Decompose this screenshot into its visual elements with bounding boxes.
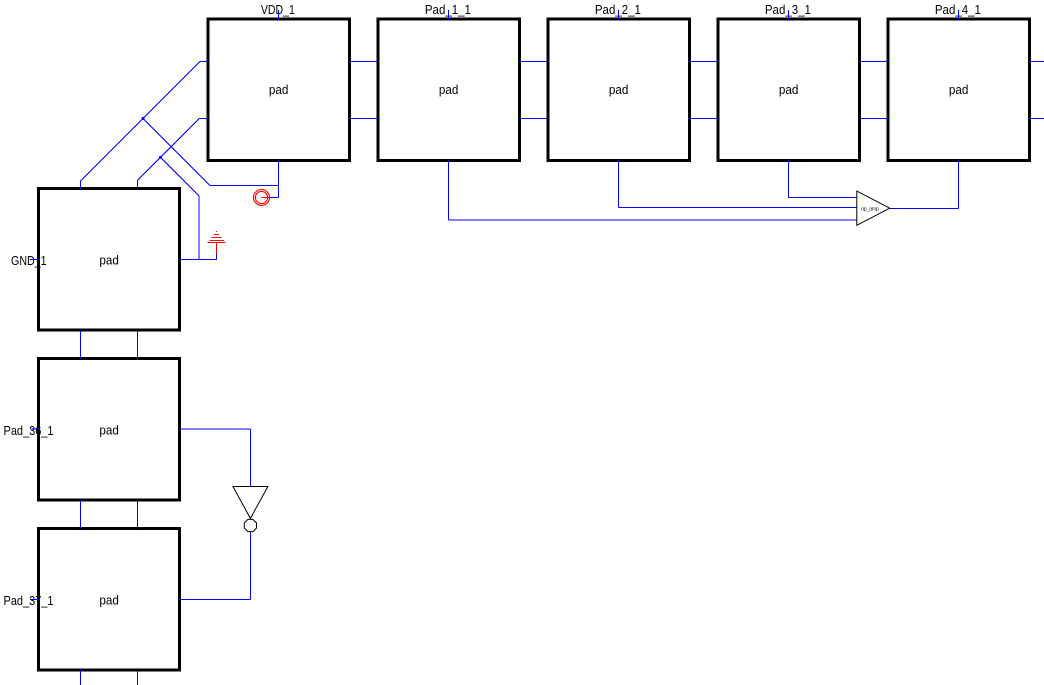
wire GND_1 top pin stub right bbox=[136, 180, 138, 190]
wire Pad_36_1 bottom stub left bbox=[79, 500, 81, 529]
wire VDD_1 to Pad_1_1 upper bbox=[349, 60, 377, 62]
wire Pad_4_1 right upper to edge bbox=[1029, 60, 1044, 62]
svg-text:Pad_3_1: Pad_3_1 bbox=[765, 2, 811, 17]
pad instance VDD_1 box bbox=[208, 19, 350, 160]
wire Pad_4_1 right lower to edge bbox=[1029, 117, 1044, 119]
svg-text:pad: pad bbox=[779, 82, 799, 97]
vdd port symbol double circle bbox=[254, 190, 270, 206]
wire net pad3 to opamp upper input bbox=[789, 196, 857, 198]
svg-text:Pad_4_1: Pad_4_1 bbox=[935, 2, 981, 17]
wire VDD_1 left lower pin stub bbox=[199, 117, 208, 119]
wire Pad_2_1 to Pad_3_1 upper bbox=[689, 60, 717, 62]
wire to vdd port circle bbox=[268, 197, 279, 199]
wire inverter output to Pad_37_1 bbox=[180, 598, 251, 600]
wire diagonal node A to vdd horizontal bbox=[143, 119, 210, 186]
pad instance Pad_37_1 box bbox=[39, 529, 180, 670]
wire Pad_2_1 to Pad_3_1 lower bbox=[689, 117, 717, 119]
svg-text:Pad_1_1: Pad_1_1 bbox=[425, 2, 471, 17]
svg-text:VDD_1: VDD_1 bbox=[261, 2, 295, 17]
wire Pad_2_1 top pin stub bbox=[618, 10, 620, 20]
wire VDD_1 top pin stub bbox=[278, 10, 280, 20]
wire Pad_1_1 top pin stub bbox=[448, 10, 450, 20]
wire Pad_37_1 bottom stub left bbox=[79, 670, 81, 685]
wire diagonal node B to GND_1 right top pin bbox=[137, 157, 160, 180]
svg-text:Pad_37_1: Pad_37_1 bbox=[4, 593, 54, 608]
wire Pad_36_1 bottom stub right bbox=[136, 500, 138, 529]
wire Pad_37_1 bottom stub right bbox=[136, 670, 138, 685]
op-amp U1 bbox=[857, 191, 890, 225]
wire GND_1 bottom stub right bbox=[136, 330, 138, 359]
wire Pad_36_1 left pin stub bbox=[30, 428, 40, 430]
svg-text:GND_1: GND_1 bbox=[11, 253, 47, 268]
wire Pad_37_1 left pin stub bbox=[30, 598, 40, 600]
wire diagonal node B to vertical bbox=[161, 157, 200, 196]
wire Pad_4_1 top pin stub bbox=[958, 10, 960, 20]
wire diagonal stub1 to node A bbox=[143, 61, 200, 118]
pad instance Pad_4_1 box bbox=[888, 19, 1030, 160]
wire Pad_1_1 to Pad_2_1 upper bbox=[519, 60, 547, 62]
wire GND_1 top pin stub left bbox=[79, 181, 81, 190]
wire net vdd horizontal to port bbox=[210, 185, 279, 187]
wire Pad_1_1 to Pad_2_1 lower bbox=[519, 117, 547, 119]
svg-text:pad: pad bbox=[99, 252, 119, 267]
svg-text:op_amp: op_amp bbox=[861, 207, 879, 213]
junction node B bbox=[159, 156, 162, 159]
wire Pad_3_1 to Pad_4_1 lower bbox=[859, 117, 887, 119]
svg-text:Pad_2_1: Pad_2_1 bbox=[595, 2, 641, 17]
wire Pad_3_1 bottom stub down bbox=[788, 160, 790, 197]
wire Pad_3_1 top pin stub bbox=[788, 10, 790, 20]
inverter U2 bbox=[233, 487, 268, 532]
wire net pad2 to opamp middle input bbox=[619, 207, 857, 209]
wire GND_1 left pin stub bbox=[30, 258, 40, 260]
svg-text:pad: pad bbox=[609, 82, 629, 97]
wire node B down vertical bbox=[198, 196, 200, 259]
wire Pad_1_1 bottom stub down bbox=[448, 160, 450, 220]
svg-text:pad: pad bbox=[269, 82, 289, 97]
wire VDD_1 to Pad_1_1 lower bbox=[349, 117, 377, 119]
wire Pad_2_1 bottom stub down bbox=[618, 160, 620, 207]
pad instance Pad_36_1 box bbox=[39, 359, 180, 500]
wire Pad_4_1 bottom stub down bbox=[958, 160, 960, 208]
junction node A bbox=[142, 117, 145, 120]
pad instance GND_1 box bbox=[39, 189, 180, 330]
pad instance Pad_3_1 box bbox=[718, 19, 860, 160]
svg-text:pad: pad bbox=[439, 82, 459, 97]
wire Pad_3_1 to Pad_4_1 upper bbox=[859, 60, 887, 62]
pad instance Pad_2_1 box bbox=[548, 19, 690, 160]
wire diagonal stub2 to node B bbox=[161, 118, 200, 157]
wire VDD_1 bottom stub down bbox=[278, 160, 280, 197]
wire VDD_1 left upper pin stub bbox=[200, 60, 208, 62]
svg-text:pad: pad bbox=[949, 82, 969, 97]
wire net pad1 to opamp lower input bbox=[449, 219, 857, 221]
wire diagonal node A to GND_1 left top pin bbox=[80, 119, 143, 182]
svg-text:pad: pad bbox=[99, 592, 119, 607]
wire Pad_36_1 right pin to inverter bbox=[180, 428, 251, 430]
wire GND_1 bottom stub left bbox=[79, 330, 81, 359]
pad instance Pad_1_1 box bbox=[378, 19, 520, 160]
svg-text:pad: pad bbox=[99, 422, 119, 437]
ground symbol bbox=[208, 232, 226, 254]
wire inverter input vertical bbox=[249, 429, 251, 487]
wire GND_1 right pin to ground bbox=[180, 258, 217, 260]
svg-text:Pad_36_1: Pad_36_1 bbox=[4, 423, 54, 438]
wire inverter output vertical bbox=[249, 532, 251, 600]
wire ground stem lower blue bbox=[216, 254, 218, 260]
wire opamp output horizontal bbox=[890, 207, 959, 209]
